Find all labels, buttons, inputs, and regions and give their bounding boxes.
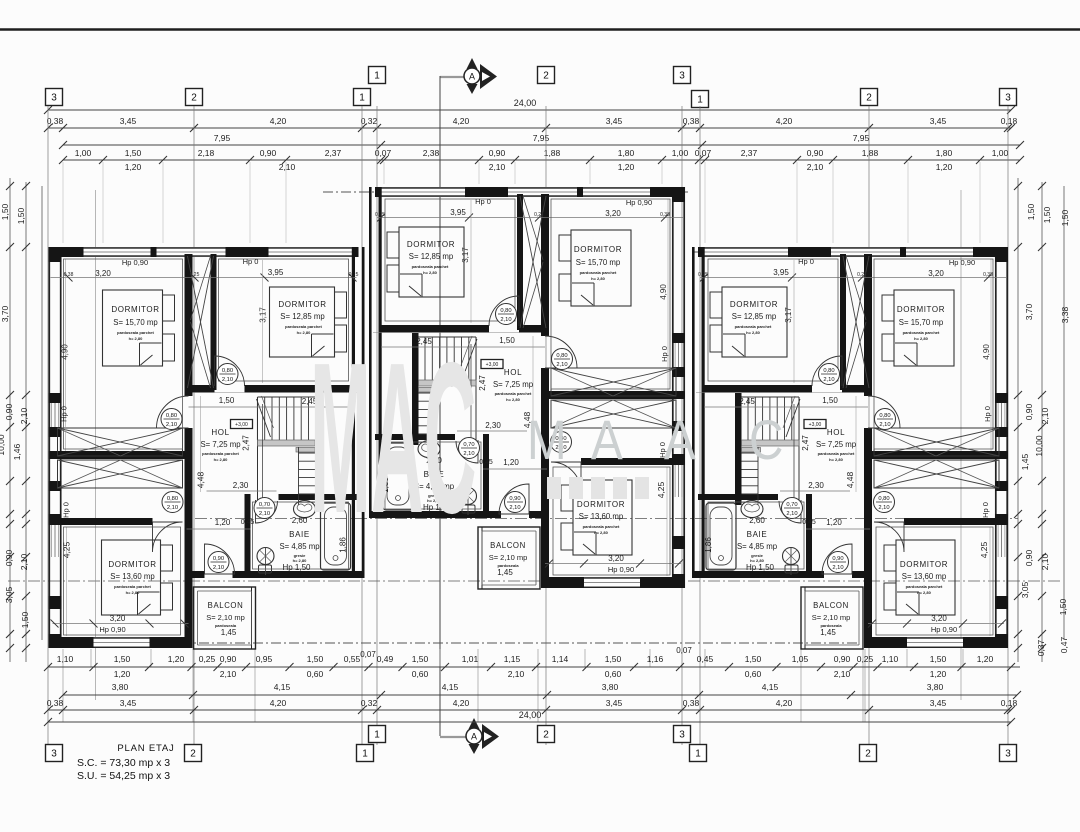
svg-text:4,20: 4,20: [270, 698, 287, 708]
dash-dot trace through upper wall right unit: [692, 251, 1010, 253]
svg-text:BALCON: BALCON: [208, 601, 244, 610]
svg-text:1,50: 1,50: [605, 654, 622, 664]
svg-text:Hp 0,90: Hp 0,90: [122, 258, 148, 267]
svg-text:3,95: 3,95: [450, 208, 466, 217]
svg-text:7,95: 7,95: [853, 133, 870, 143]
svg-text:1,45: 1,45: [1020, 453, 1030, 470]
svg-text:1: 1: [362, 749, 368, 760]
grid extension verticals: [47, 106, 49, 745]
svg-text:1: 1: [695, 749, 701, 760]
svg-text:1,50: 1,50: [20, 611, 30, 628]
sheet top border line: [0, 28, 1080, 30]
svg-text:pardoseala parchet: pardoseala parchet: [202, 451, 239, 456]
svg-text:0,90: 0,90: [509, 496, 520, 502]
svg-text:10,00: 10,00: [0, 434, 6, 456]
svg-text:DORMITOR: DORMITOR: [577, 500, 625, 509]
svg-text:2,10: 2,10: [1040, 553, 1050, 570]
svg-text:3,45: 3,45: [120, 116, 137, 126]
bottom dim chain lines: [48, 666, 1020, 668]
svg-text:1,20: 1,20: [930, 669, 947, 679]
svg-text:1,10: 1,10: [882, 654, 899, 664]
svg-text:4,90: 4,90: [659, 284, 668, 300]
svg-text:7,95: 7,95: [214, 133, 231, 143]
svg-text:A: A: [591, 409, 623, 471]
svg-text:2,10: 2,10: [166, 422, 177, 428]
svg-text:0,90: 0,90: [4, 403, 14, 420]
svg-text:1,20: 1,20: [826, 518, 842, 527]
grid bubble 2 top: [538, 67, 555, 84]
svg-text:BAIE: BAIE: [747, 530, 768, 539]
svg-text:1,50: 1,50: [412, 654, 429, 664]
svg-text:pardoseala parchet: pardoseala parchet: [580, 270, 617, 275]
svg-text:4,90: 4,90: [982, 344, 991, 360]
watermark row 2 MAAC: [527, 409, 783, 471]
top chain extension verticals: [62, 162, 64, 243]
grid bubble 3 top: [674, 67, 691, 84]
svg-text:0,60: 0,60: [307, 669, 324, 679]
svg-text:2,10: 2,10: [878, 505, 889, 511]
svg-text:4,90: 4,90: [61, 344, 70, 360]
svg-text:S= 4,85 mp: S= 4,85 mp: [737, 542, 778, 551]
svg-text:Hp 0: Hp 0: [243, 257, 259, 266]
svg-text:+3,00: +3,00: [235, 422, 248, 428]
svg-text:S= 13,60 mp: S= 13,60 mp: [110, 572, 155, 581]
svg-text:1,20: 1,20: [618, 162, 635, 172]
svg-text:HOL: HOL: [504, 368, 522, 377]
svg-text:Hp 1,50: Hp 1,50: [282, 563, 311, 572]
svg-text:3: 3: [1005, 93, 1011, 104]
svg-text:Hp 0: Hp 0: [981, 502, 990, 518]
section line A-A: [440, 76, 464, 78]
svg-text:0,60: 0,60: [605, 669, 622, 679]
svg-text:S= 7,25 mp: S= 7,25 mp: [200, 440, 241, 449]
svg-text:2,10: 2,10: [879, 422, 890, 428]
svg-text:4,48: 4,48: [196, 471, 206, 488]
svg-text:2,30: 2,30: [808, 481, 824, 490]
svg-text:3,45: 3,45: [930, 698, 947, 708]
svg-text:4,25: 4,25: [656, 481, 666, 498]
svg-text:1,50: 1,50: [1060, 209, 1070, 226]
svg-text:3,17: 3,17: [461, 247, 470, 263]
svg-text:0,25: 0,25: [698, 272, 708, 278]
svg-text:pardoseala parchet: pardoseala parchet: [495, 391, 532, 396]
svg-text:2,47: 2,47: [801, 435, 810, 451]
svg-text:BALCON: BALCON: [813, 601, 849, 610]
svg-text:2,10: 2,10: [167, 505, 178, 511]
svg-text:Hp 0: Hp 0: [475, 197, 491, 206]
svg-text:h= 2,80: h= 2,80: [917, 590, 931, 595]
svg-text:pardoseala parchet: pardoseala parchet: [735, 324, 772, 329]
svg-text:2,30: 2,30: [485, 421, 501, 430]
door size ovals: [217, 364, 238, 385]
svg-text:3,80: 3,80: [112, 682, 129, 692]
svg-text:3: 3: [51, 749, 57, 760]
svg-text:1,50: 1,50: [930, 654, 947, 664]
section marker A top: [467, 58, 478, 69]
svg-text:2,10: 2,10: [823, 377, 834, 383]
svg-text:3: 3: [679, 730, 685, 741]
watermark big letters: [310, 319, 476, 559]
svg-text:3,20: 3,20: [608, 554, 624, 563]
svg-text:2: 2: [866, 93, 872, 104]
side chain ticks: [6, 182, 14, 190]
svg-text:S= 7,25 mp: S= 7,25 mp: [816, 440, 857, 449]
svg-text:3,38: 3,38: [1060, 306, 1070, 323]
svg-text:0,80: 0,80: [500, 308, 511, 314]
svg-text:Hp 0,90: Hp 0,90: [931, 625, 957, 634]
dash-dot trace middle unit wall: [323, 191, 688, 193]
svg-text:4,20: 4,20: [270, 116, 287, 126]
svg-text:0,25: 0,25: [534, 212, 544, 218]
svg-text:3,70: 3,70: [0, 305, 10, 322]
svg-text:2,10: 2,10: [222, 377, 233, 383]
svg-text:2,10: 2,10: [220, 669, 237, 679]
svg-text:DORMITOR: DORMITOR: [108, 560, 156, 569]
horizontal reference line lower: [8, 580, 1062, 582]
svg-text:0,45: 0,45: [241, 519, 255, 526]
svg-text:pardoseala parchet: pardoseala parchet: [412, 264, 449, 269]
grid bubbles bottom row 2: [46, 745, 63, 762]
svg-text:0,80: 0,80: [222, 368, 233, 374]
svg-text:h= 2,80: h= 2,80: [594, 530, 608, 535]
svg-text:1,50: 1,50: [1026, 203, 1036, 220]
svg-text:0,80: 0,80: [166, 413, 177, 419]
grid bubbles top row 2: [46, 89, 63, 106]
svg-text:h= 2,80: h= 2,80: [214, 457, 228, 462]
svg-text:3,20: 3,20: [931, 614, 947, 623]
svg-text:1,50: 1,50: [822, 396, 838, 405]
svg-text:1,50: 1,50: [125, 148, 142, 158]
svg-text:0,45: 0,45: [802, 519, 816, 526]
svg-text:3,45: 3,45: [606, 116, 623, 126]
svg-text:1,00: 1,00: [75, 148, 92, 158]
svg-text:1,20: 1,20: [114, 669, 131, 679]
svg-text:1,10: 1,10: [57, 654, 74, 664]
door size ovals: [819, 364, 840, 385]
svg-text:3: 3: [679, 71, 685, 82]
horizontal reference line mid: [195, 518, 1018, 520]
svg-text:2: 2: [191, 93, 197, 104]
svg-text:DORMITOR: DORMITOR: [111, 305, 159, 314]
grid bubble 1 top: [369, 67, 386, 84]
svg-text:3,17: 3,17: [259, 307, 268, 323]
svg-text:0,25: 0,25: [375, 212, 385, 218]
svg-text:2,60: 2,60: [749, 516, 765, 525]
svg-text:1,00: 1,00: [992, 148, 1009, 158]
svg-text:S= 12,85 mp: S= 12,85 mp: [409, 252, 454, 261]
svg-text:1,86: 1,86: [704, 537, 713, 553]
svg-text:HOL: HOL: [827, 428, 845, 437]
svg-text:0,25: 0,25: [857, 272, 867, 278]
svg-text:0,07: 0,07: [676, 646, 692, 655]
svg-text:0,60: 0,60: [745, 669, 762, 679]
svg-text:1,20: 1,20: [168, 654, 185, 664]
svg-text:3,45: 3,45: [606, 698, 623, 708]
svg-text:2,60: 2,60: [292, 516, 308, 525]
svg-text:Hp 0: Hp 0: [983, 406, 992, 422]
svg-text:3: 3: [1005, 749, 1011, 760]
svg-text:1,50: 1,50: [307, 654, 324, 664]
svg-text:2,10: 2,10: [1040, 407, 1050, 424]
svg-text:10,00: 10,00: [1034, 435, 1044, 457]
svg-text:S= 13,60 mp: S= 13,60 mp: [579, 512, 624, 521]
svg-text:3,95: 3,95: [268, 268, 284, 277]
dimension chain lines (top): [48, 109, 1011, 111]
svg-text:1,00: 1,00: [672, 148, 689, 158]
svg-text:PLAN ETAJ: PLAN ETAJ: [117, 743, 174, 754]
svg-text:4,20: 4,20: [776, 116, 793, 126]
svg-text:1,45: 1,45: [221, 628, 237, 637]
svg-text:3,20: 3,20: [928, 269, 944, 278]
svg-text:3: 3: [51, 93, 57, 104]
svg-text:DORMITOR: DORMITOR: [897, 305, 945, 314]
LEFT UNIT (mirrored): [49, 247, 365, 649]
right edge dim chain lines: [1017, 178, 1019, 662]
svg-text:Hp 1,50: Hp 1,50: [746, 563, 775, 572]
svg-text:1,01: 1,01: [462, 654, 479, 664]
svg-text:1,46: 1,46: [12, 443, 22, 460]
grid bubbles bottom row 1: [369, 726, 386, 743]
svg-text:BALCON: BALCON: [490, 541, 526, 550]
svg-text:A: A: [469, 72, 475, 82]
svg-text:0,90: 0,90: [1024, 549, 1034, 566]
svg-text:Hp 0: Hp 0: [660, 346, 669, 362]
svg-text:0,07: 0,07: [360, 650, 376, 659]
svg-text:2,10: 2,10: [19, 407, 29, 424]
svg-text:0,80: 0,80: [823, 368, 834, 374]
svg-text:1,15: 1,15: [504, 654, 521, 664]
svg-text:Hp 0,90: Hp 0,90: [99, 625, 125, 634]
svg-text:DORMITOR: DORMITOR: [900, 560, 948, 569]
svg-text:A: A: [471, 732, 477, 742]
svg-text:0,90: 0,90: [834, 654, 851, 664]
svg-text:S= 13,60 mp: S= 13,60 mp: [902, 572, 947, 581]
svg-text:0,60: 0,60: [412, 669, 429, 679]
svg-text:4,15: 4,15: [274, 682, 291, 692]
svg-text:0,90: 0,90: [832, 556, 843, 562]
svg-text:1: 1: [359, 93, 365, 104]
svg-text:2,10: 2,10: [213, 565, 224, 571]
svg-text:2: 2: [190, 749, 196, 760]
svg-text:4,15: 4,15: [442, 682, 459, 692]
svg-text:S.U. = 54,25 mp x 3: S.U. = 54,25 mp x 3: [77, 770, 170, 782]
svg-text:2,10: 2,10: [834, 669, 851, 679]
svg-text:24,00: 24,00: [519, 710, 542, 720]
svg-text:3,17: 3,17: [784, 307, 793, 323]
svg-text:S= 15,70 mp: S= 15,70 mp: [113, 318, 158, 327]
svg-text:4,20: 4,20: [453, 698, 470, 708]
svg-text:S= 15,70 mp: S= 15,70 mp: [899, 318, 944, 327]
svg-text:MAC: MAC: [310, 319, 476, 559]
svg-text:2,10: 2,10: [259, 511, 270, 517]
svg-text:0,38: 0,38: [983, 272, 993, 278]
svg-text:4,20: 4,20: [453, 116, 470, 126]
svg-text:1,16: 1,16: [647, 654, 664, 664]
svg-text:2,10: 2,10: [807, 162, 824, 172]
svg-text:1,50: 1,50: [114, 654, 131, 664]
svg-text:3,70: 3,70: [1024, 303, 1034, 320]
svg-text:24,00: 24,00: [514, 98, 537, 108]
svg-text:h= 2,80: h= 2,80: [746, 330, 760, 335]
svg-text:2,47: 2,47: [478, 375, 487, 391]
svg-text:2,10: 2,10: [279, 162, 296, 172]
svg-text:S= 2,10 mp: S= 2,10 mp: [812, 613, 851, 622]
svg-text:1,20: 1,20: [503, 458, 519, 467]
svg-text:0,38: 0,38: [64, 272, 74, 278]
svg-text:0,70: 0,70: [259, 502, 270, 508]
svg-text:0,95: 0,95: [256, 654, 273, 664]
svg-text:0,80: 0,80: [878, 496, 889, 502]
svg-text:pardoseala parchet: pardoseala parchet: [583, 524, 620, 529]
svg-text:1,88: 1,88: [862, 148, 879, 158]
svg-text:BAIE: BAIE: [289, 530, 310, 539]
svg-text:1: 1: [374, 71, 380, 82]
svg-text:h= 2,80: h= 2,80: [506, 397, 520, 402]
svg-text:pardoseala parchet: pardoseala parchet: [906, 584, 943, 589]
svg-text:h= 2,80: h= 2,80: [914, 336, 928, 341]
watermark row 3 faint: [547, 477, 649, 499]
door size ovals: [496, 304, 517, 325]
svg-text:Hp 0: Hp 0: [798, 257, 814, 266]
svg-text:2,10: 2,10: [509, 505, 520, 511]
svg-text:2,45: 2,45: [739, 397, 755, 406]
svg-text:2,10: 2,10: [786, 511, 797, 517]
svg-text:0,45: 0,45: [697, 654, 714, 664]
svg-text:0,49: 0,49: [377, 654, 394, 664]
svg-text:HOL: HOL: [211, 428, 229, 437]
svg-text:2,10: 2,10: [508, 669, 525, 679]
svg-text:0,45: 0,45: [479, 459, 493, 466]
svg-text:1,45: 1,45: [820, 628, 836, 637]
svg-text:Hp 0: Hp 0: [60, 406, 69, 422]
svg-text:3,20: 3,20: [110, 614, 126, 623]
svg-text:0,90: 0,90: [220, 654, 237, 664]
svg-text:2,10: 2,10: [500, 317, 511, 323]
svg-text:3,05: 3,05: [4, 586, 14, 603]
svg-text:2,18: 2,18: [198, 148, 215, 158]
dash-dot trace bottom: [55, 642, 860, 644]
svg-text:4,25: 4,25: [979, 541, 989, 558]
svg-text:1,80: 1,80: [618, 148, 635, 158]
svg-text:2,38: 2,38: [423, 148, 440, 158]
svg-text:DORMITOR: DORMITOR: [730, 300, 778, 309]
svg-text:0,90: 0,90: [260, 148, 277, 158]
svg-text:1,45: 1,45: [497, 568, 513, 577]
svg-text:h= 2,80: h= 2,80: [829, 457, 843, 462]
svg-text:3,95: 3,95: [773, 268, 789, 277]
svg-text:4,15: 4,15: [762, 682, 779, 692]
svg-text:2,10: 2,10: [489, 162, 506, 172]
svg-text:0,80: 0,80: [879, 413, 890, 419]
svg-text:S= 2,10 mp: S= 2,10 mp: [489, 553, 528, 562]
svg-text:0,32: 0,32: [361, 116, 378, 126]
svg-text:0,32: 0,32: [361, 698, 378, 708]
RIGHT UNIT: [692, 247, 1008, 649]
svg-text:2,10: 2,10: [556, 362, 567, 368]
svg-text:h= 2,80: h= 2,80: [129, 336, 143, 341]
svg-text:3,20: 3,20: [95, 269, 111, 278]
svg-text:pardoseala parchet: pardoseala parchet: [818, 451, 855, 456]
svg-text:Hp 0: Hp 0: [62, 502, 71, 518]
svg-text:pardoseala parchet: pardoseala parchet: [114, 584, 151, 589]
svg-text:0,38: 0,38: [47, 698, 64, 708]
svg-text:1,50: 1,50: [219, 396, 235, 405]
svg-text:1: 1: [697, 95, 703, 106]
svg-text:2,30: 2,30: [233, 481, 249, 490]
misc extension verticals: [95, 190, 97, 700]
svg-text:0,38: 0,38: [47, 116, 64, 126]
svg-text:4,20: 4,20: [776, 698, 793, 708]
svg-text:1,20: 1,20: [936, 162, 953, 172]
svg-text:1,50: 1,50: [0, 203, 10, 220]
svg-text:3,80: 3,80: [602, 682, 619, 692]
svg-text:2,47: 2,47: [242, 435, 251, 451]
svg-text:2,10: 2,10: [832, 565, 843, 571]
svg-text:1,50: 1,50: [499, 336, 515, 345]
svg-text:A: A: [664, 409, 696, 471]
svg-text:M: M: [527, 409, 567, 471]
svg-text:1,20: 1,20: [125, 162, 142, 172]
svg-text:h= 2,80: h= 2,80: [591, 276, 605, 281]
svg-text:S= 2,10 mp: S= 2,10 mp: [206, 613, 245, 622]
svg-text:2,37: 2,37: [325, 148, 342, 158]
svg-text:2: 2: [543, 71, 549, 82]
svg-text:2: 2: [865, 749, 871, 760]
svg-text:h= 2,80: h= 2,80: [126, 590, 140, 595]
svg-text:DORMITOR: DORMITOR: [574, 245, 622, 254]
section marker A bottom: [469, 718, 480, 729]
svg-text:+3,00: +3,00: [486, 362, 499, 368]
svg-text:0,25: 0,25: [349, 272, 359, 278]
svg-text:0,25: 0,25: [199, 654, 216, 664]
svg-text:0,25: 0,25: [190, 272, 200, 278]
svg-text:0,47: 0,47: [1059, 636, 1069, 653]
svg-text:S= 7,25 mp: S= 7,25 mp: [493, 380, 534, 389]
svg-text:S.C. = 73,30 mp x 3: S.C. = 73,30 mp x 3: [77, 757, 170, 769]
svg-text:pardoseala parchet: pardoseala parchet: [903, 330, 940, 335]
svg-text:1,80: 1,80: [936, 148, 953, 158]
svg-text:+3,00: +3,00: [809, 422, 822, 428]
svg-text:0,80: 0,80: [167, 496, 178, 502]
svg-text:0,90: 0,90: [1024, 403, 1034, 420]
svg-text:1,20: 1,20: [977, 654, 994, 664]
svg-text:1,05: 1,05: [792, 654, 809, 664]
svg-text:0,90: 0,90: [807, 148, 824, 158]
svg-text:1,14: 1,14: [552, 654, 569, 664]
svg-text:1,50: 1,50: [16, 207, 26, 224]
svg-text:Hp 0,90: Hp 0,90: [608, 565, 634, 574]
svg-text:7,95: 7,95: [533, 133, 550, 143]
svg-text:h= 2,80: h= 2,80: [423, 270, 437, 275]
svg-text:1,50: 1,50: [1058, 598, 1068, 615]
svg-text:pardoseala parchet: pardoseala parchet: [117, 330, 154, 335]
svg-text:1,50: 1,50: [1042, 206, 1052, 223]
svg-text:1,50: 1,50: [745, 654, 762, 664]
svg-text:Hp 0,90: Hp 0,90: [626, 198, 652, 207]
svg-text:0,70: 0,70: [786, 502, 797, 508]
svg-text:3,45: 3,45: [930, 116, 947, 126]
left edge dim chain lines: [9, 178, 11, 662]
svg-text:2: 2: [543, 730, 549, 741]
svg-text:3,45: 3,45: [120, 698, 137, 708]
svg-text:0,37: 0,37: [1036, 639, 1046, 656]
svg-text:0,55: 0,55: [344, 654, 361, 664]
svg-text:3,20: 3,20: [605, 209, 621, 218]
svg-text:4,48: 4,48: [845, 471, 855, 488]
svg-text:0,80: 0,80: [556, 353, 567, 359]
svg-text:S= 12,85 mp: S= 12,85 mp: [732, 312, 777, 321]
svg-text:Hp 0,90: Hp 0,90: [949, 258, 975, 267]
